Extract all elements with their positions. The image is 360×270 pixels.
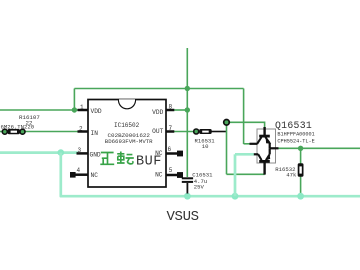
svg-text:NC: NC [91, 172, 99, 179]
node junction (300.6,148.4) [298, 146, 303, 151]
resistor R16532 [298, 163, 304, 177]
pin 1 stub [78, 109, 89, 112]
glyph 転 [117, 152, 134, 164]
wire output right y=148.4 [278, 147, 360, 149]
wire GND pale from left edge y=152.6 [0, 151, 78, 154]
svg-text:47k: 47k [286, 172, 297, 179]
node pale junction (235,196.2) [232, 193, 239, 200]
node pale junction (187.4,196.2) [184, 193, 191, 200]
no-connect square pin 6 [177, 151, 183, 157]
svg-text:5: 5 [169, 167, 173, 174]
pin 4 stub [75, 173, 88, 176]
IC IC16502 body [88, 100, 166, 188]
svg-text:Q16531: Q16531 [275, 120, 312, 131]
svg-text:1: 1 [80, 104, 84, 111]
svg-text:IN: IN [91, 130, 99, 137]
wire resistor R16107 to pin2 [24, 131, 79, 133]
pin 6 stub [166, 152, 177, 155]
wire pale vertical x=235 [234, 154, 237, 196]
svg-text:8: 8 [169, 104, 173, 111]
svg-text:NC: NC [155, 171, 163, 178]
svg-text:4: 4 [77, 167, 81, 174]
transistor Q2 bottom (PNP) [254, 148, 270, 174]
svg-text:OUT: OUT [152, 128, 163, 135]
node pad (226.5,122.3) [224, 120, 230, 126]
wire OUT to Q1 base y=122.3 [227, 121, 265, 123]
node junction (187,88.5) [185, 86, 190, 91]
svg-text:3: 3 [78, 147, 82, 154]
node junction pin8 (187.3,110) [185, 107, 190, 112]
wire pin8 to VDD vertical [174, 109, 187, 111]
transistor Q16531 box [257, 129, 276, 163]
svg-text:BD6693FVM-MVTR: BD6693FVM-MVTR [105, 138, 153, 145]
pin 5 stub [166, 174, 177, 177]
wire to Q1 collector lead [244, 143, 250, 145]
no-connect square pin 4 [70, 172, 76, 178]
glyph 正 [100, 153, 114, 165]
wire Q2 collector bottom y=174.3 [227, 173, 265, 175]
capacitor C16531 [182, 177, 193, 179]
wire R16532 bottom lead [300, 177, 302, 196]
IC IC16502 notch [119, 100, 136, 109]
wire IN net from left edge [0, 131, 3, 133]
wire VDD from left edge y=110 [0, 109, 79, 111]
wire VDD horizontal y=88.5 [74, 88, 243, 90]
pin 8 stub [166, 109, 174, 112]
node pale junction (300.6,196.2) [297, 193, 304, 200]
svg-text:VSUS: VSUS [167, 209, 199, 225]
svg-text:25V: 25V [194, 184, 205, 191]
wire Q1 base drop [264, 122, 266, 130]
svg-text:CPH5524-TL-E: CPH5524-TL-E [277, 139, 314, 145]
resistor R16531 [194, 129, 199, 134]
svg-text:2: 2 [79, 126, 83, 133]
svg-text:6: 6 [168, 146, 172, 153]
svg-text:VDD: VDD [91, 108, 102, 115]
wire pin7 OUT to R16531 [174, 131, 194, 133]
Q1 emitter arrow [266, 137, 272, 143]
svg-text:10: 10 [202, 143, 209, 150]
wire R16531 right lead [212, 131, 227, 133]
wire pale Q2 base horizontal y=154.3 [235, 153, 254, 156]
wire VDD vertical from top [186, 48, 188, 177]
node pale junction (60.8,152.6) [58, 149, 65, 156]
transistor Q1 top (NPN) [250, 127, 270, 148]
pin 3 stub [77, 152, 89, 155]
no-connect square pin 5 [177, 172, 183, 178]
wire VDD branch down x=243.6 [243, 89, 245, 145]
pin 7 stub [166, 130, 174, 133]
IC function label green (正転BUF drawn as strokes) [100, 152, 134, 165]
svg-text:VDD: VDD [152, 109, 163, 116]
wire Q collectors mid output [270, 147, 279, 149]
wire OUT vertical x=226.5 [226, 122, 228, 174]
wire VDD left drop to pin1 [73, 89, 75, 111]
resistor R16107 [2, 129, 7, 134]
svg-text:B1HFPFA00001: B1HFPFA00001 [277, 132, 314, 138]
svg-text:BUF: BUF [136, 154, 162, 169]
Q2 emitter arrow [265, 154, 270, 161]
svg-text:7: 7 [169, 125, 173, 132]
wire GND pale drop x=60.8 and bottom y=196.2 [61, 153, 360, 197]
svg-text:GND: GND [90, 152, 101, 159]
svg-text:6M26.TN220: 6M26.TN220 [1, 124, 35, 131]
wire R16532 top lead [300, 148, 302, 164]
node junction (74.4,110) [72, 107, 77, 112]
pin 2 stub [78, 130, 89, 133]
svg-text:IC16502: IC16502 [114, 122, 140, 129]
